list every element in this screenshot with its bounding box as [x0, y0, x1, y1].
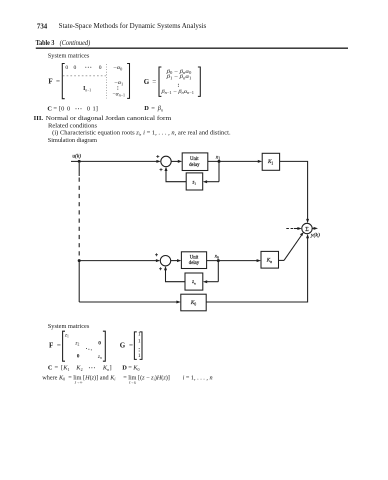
summing junction 1 — [161, 156, 171, 166]
arrowhead into sigma top — [306, 219, 309, 223]
unit delay 1 box — [182, 153, 208, 171]
wire node B to sum n — [79, 260, 156, 262]
svg-text:D=K0: D=K0 — [122, 365, 139, 372]
bottom F left bracket — [63, 331, 65, 361]
arrowhead into unit delay 1 — [178, 160, 182, 163]
C equation cdots — [76, 108, 77, 109]
svg-text:G =: G = — [144, 78, 156, 86]
G vdots — [178, 84, 179, 85]
svg-text:1: 1 — [138, 339, 141, 345]
svg-text:F =: F = — [48, 77, 60, 85]
arrowhead into Kn — [257, 259, 261, 262]
sigma summing junction — [302, 223, 312, 233]
bottom rail to K0 — [79, 301, 177, 303]
arrowhead into K1 — [258, 160, 262, 163]
gain K0 box — [181, 294, 206, 311]
wire unit delay n to Kn — [207, 260, 258, 262]
continuation dashes left of sigma — [286, 228, 294, 230]
F right bracket — [127, 64, 129, 99]
F ddots — [86, 348, 87, 349]
arrowhead into unit delay n — [177, 259, 181, 262]
node B (input branch, row n) — [78, 259, 81, 262]
arrowhead into sigma left — [297, 227, 301, 230]
gain Kn box — [261, 251, 279, 268]
feedback 1 wire down from x1 — [218, 161, 220, 181]
svg-text:where K0= lim [H(z)] and Ki= l: where K0= lim [H(z)] and Ki= lim [(z − z… — [42, 374, 170, 381]
svg-text:Simulation diagram: Simulation diagram — [48, 137, 97, 144]
node xn — [217, 259, 220, 262]
summing junction n — [160, 256, 170, 266]
F partition dotted vertical — [106, 64, 108, 98]
F left bracket — [62, 64, 64, 99]
input stub wire — [71, 160, 79, 162]
svg-text:y(k): y(k) — [310, 232, 320, 239]
svg-text:1: 1 — [138, 353, 141, 359]
F row 1 cdots — [85, 67, 86, 68]
G left bracket — [159, 67, 161, 96]
gain K1 box — [262, 153, 279, 170]
svg-text:zn: zn — [191, 280, 196, 285]
G right bracket — [198, 67, 200, 96]
svg-text:0: 0 — [74, 65, 77, 71]
svg-text:β1 − βnα1: β1 − βnα1 — [165, 74, 191, 80]
plus sign lower input sum n — [159, 267, 162, 270]
feedback 1 wire z1 to below sum 1 — [166, 170, 186, 181]
feedback n wire down from xn — [217, 261, 219, 282]
zn box — [185, 273, 203, 290]
feedback n wire left to zn — [207, 281, 219, 283]
arrowhead diagonal into sigma — [300, 232, 304, 236]
node A (input branch, row 1) — [78, 160, 81, 163]
svg-text:C=[K1K2Kn]: C=[K1K2Kn] — [48, 365, 112, 372]
bottom G right bracket — [140, 332, 142, 360]
G vdots (bottom) — [139, 348, 140, 349]
arrowhead into zn right side — [203, 280, 207, 283]
dashed continuation wire (left rail) — [78, 163, 80, 176]
svg-text:(i) Characteristic equation ro: (i) Characteristic equation roots zi, i … — [52, 129, 231, 136]
F right column vdots — [117, 86, 118, 87]
svg-text:Unit: Unit — [190, 157, 199, 162]
svg-text:System matrices: System matrices — [48, 53, 90, 60]
arrowhead into sigma bottom — [306, 234, 309, 238]
plus sign upper input sum n — [155, 253, 158, 256]
svg-text:Σ: Σ — [305, 227, 309, 233]
rule under table caption — [36, 47, 348, 49]
svg-text:0: 0 — [99, 65, 102, 71]
bottom F right bracket — [103, 331, 105, 361]
svg-text:0: 0 — [77, 354, 80, 360]
plus sign lower input sum 1 — [160, 168, 163, 171]
wire Kn out short — [279, 259, 285, 261]
svg-text:delay: delay — [189, 261, 200, 266]
svg-text:0: 0 — [98, 340, 101, 346]
svg-text:z→∞: z→∞ — [74, 380, 83, 384]
arrow wire into sigma left — [294, 228, 299, 230]
node x1 — [218, 160, 221, 163]
svg-text:(Continued): (Continued) — [60, 40, 91, 47]
bottom C cdots — [89, 367, 90, 368]
svg-text:State-Space Methods for Dynami: State-Space Methods for Dynamic Systems … — [59, 23, 207, 30]
svg-text:Normal or diagonal Jordan cano: Normal or diagonal Jordan canonical form — [46, 115, 172, 122]
svg-text:Table 3: Table 3 — [36, 39, 55, 47]
wire node A to sum 1 — [79, 160, 157, 162]
wire unit delay 1 to K1 — [208, 160, 259, 162]
svg-text:G =: G = — [120, 342, 133, 350]
unit delay n box — [181, 252, 206, 269]
arrowhead into sum 1 bottom — [165, 167, 168, 171]
feedback n wire zn to below sum n — [166, 270, 186, 282]
svg-text:u(k): u(k) — [72, 153, 81, 160]
wire sum n to unit delay n — [171, 260, 178, 262]
svg-text:III.: III. — [34, 115, 44, 122]
arrowhead into z1 right side — [203, 180, 207, 183]
bottom G left bracket — [134, 332, 136, 360]
left rail solid down — [78, 261, 80, 302]
feedback 1 wire left to z1 — [207, 181, 220, 183]
wire sum 1 to unit delay 1 — [171, 160, 178, 162]
svg-text:F =: F = — [49, 341, 61, 349]
arrowhead into sum n — [156, 259, 160, 262]
wire K1 to sigma (right, down) — [280, 161, 308, 219]
z1 box — [186, 173, 203, 190]
svg-text:D=βn: D=βn — [144, 105, 163, 112]
F partition dashed horizontal — [63, 75, 106, 77]
svg-text:734: 734 — [37, 21, 47, 30]
plus sign upper input sum 1 — [156, 155, 159, 158]
arrowhead into sum 1 — [156, 160, 160, 163]
bottom rail K0 to sigma riser — [206, 238, 307, 302]
arrowhead into sum n bottom — [164, 266, 167, 270]
svg-text:delay: delay — [189, 163, 200, 168]
svg-text:0: 0 — [65, 65, 68, 71]
output wire sigma right — [312, 227, 314, 229]
svg-text:i = 1, . . . , n: i = 1, . . . , n — [183, 374, 213, 381]
svg-text:z1: z1 — [192, 180, 197, 185]
arrowhead output — [314, 227, 318, 230]
arrowhead into K0 — [176, 301, 180, 304]
wire diagonal Kn to sigma — [284, 235, 302, 261]
svg-text:System matrices: System matrices — [48, 323, 90, 330]
svg-text:Unit: Unit — [190, 255, 199, 260]
